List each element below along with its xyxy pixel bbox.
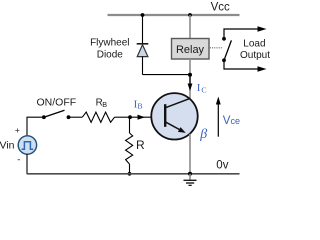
svg-text:C: C: [201, 86, 206, 95]
svg-text:B: B: [102, 100, 107, 109]
Ic label: [197, 82, 207, 94]
wire: diode anode to collector node: [143, 74, 191, 76]
arrow head load bottom: [258, 66, 267, 71]
current arrow Ib: [138, 115, 146, 120]
0v rail: [27, 173, 240, 175]
svg-text:ON/OFF: ON/OFF: [37, 97, 77, 109]
svg-text:0v: 0v: [216, 160, 228, 172]
svg-text:Vin: Vin: [0, 139, 15, 151]
node: contact top terminal: [222, 37, 226, 41]
wire: load output top: [224, 29, 259, 39]
wire: base lead into transistor: [130, 116, 165, 118]
node: collector junction: [188, 73, 192, 77]
Vce arrow: [216, 97, 221, 137]
junction dot on Vcc rail (relay branch): [188, 13, 192, 17]
svg-text:β: β: [199, 127, 207, 142]
svg-text:-: -: [17, 155, 20, 166]
wire: switch to RB: [69, 116, 83, 118]
svg-text:Diode: Diode: [97, 50, 124, 61]
svg-text:R: R: [136, 138, 145, 152]
wire: emitter to 0v rail: [189, 134, 191, 174]
wire: Vin bottom to 0v rail: [26, 154, 28, 174]
node: contact bottom terminal: [222, 58, 226, 62]
wire: Vcc rail down to diode cathode: [142, 15, 144, 44]
svg-text:ce: ce: [231, 116, 241, 126]
svg-text:Vcc: Vcc: [211, 2, 230, 14]
node: R bottom on 0v rail: [128, 172, 132, 176]
switch SW1 blade: [44, 110, 65, 117]
wire: RB to base node: [115, 116, 131, 118]
Vcc rail: [108, 14, 240, 16]
Ib label: [134, 98, 143, 110]
Load Output label: [240, 38, 270, 61]
RB label: [96, 98, 108, 110]
resistor RB: [82, 112, 114, 122]
svg-text:Relay: Relay: [176, 44, 205, 56]
Vce label: [223, 115, 240, 127]
relay coil box: [172, 39, 210, 60]
transistor Q1: [151, 93, 197, 139]
svg-text:I: I: [197, 82, 201, 94]
wire: Vin top to switch: [27, 117, 44, 136]
Flywheel Diode label: [90, 37, 129, 60]
current arrow Ic: [188, 75, 193, 91]
ground symbol: [184, 174, 197, 186]
flywheel diode D1: [137, 44, 149, 57]
svg-text:Load: Load: [243, 38, 265, 49]
junction dot on Vcc rail (diode branch): [141, 13, 145, 17]
wire: relay to transistor collector: [189, 59, 191, 99]
wire: Vcc rail down to relay: [189, 15, 191, 39]
Vin source V1: [18, 136, 36, 154]
svg-text:Output: Output: [240, 50, 270, 61]
relay contact blade (open switch): [224, 40, 231, 60]
arrow head load top: [258, 26, 267, 31]
node: base junction: [128, 115, 132, 119]
svg-text:+: +: [15, 125, 20, 135]
node: switch pivot: [42, 115, 46, 119]
wire: load output bottom: [224, 60, 259, 69]
resistor R (base-emitter): [126, 117, 133, 174]
svg-text:B: B: [137, 102, 142, 111]
node: switch output terminal: [67, 115, 71, 119]
node: emitter/ground junction: [188, 172, 192, 176]
wire: diode anode down: [142, 57, 144, 75]
svg-text:Flywheel: Flywheel: [90, 37, 129, 48]
dotted mechanical link relay to contacts: [210, 47, 222, 49]
